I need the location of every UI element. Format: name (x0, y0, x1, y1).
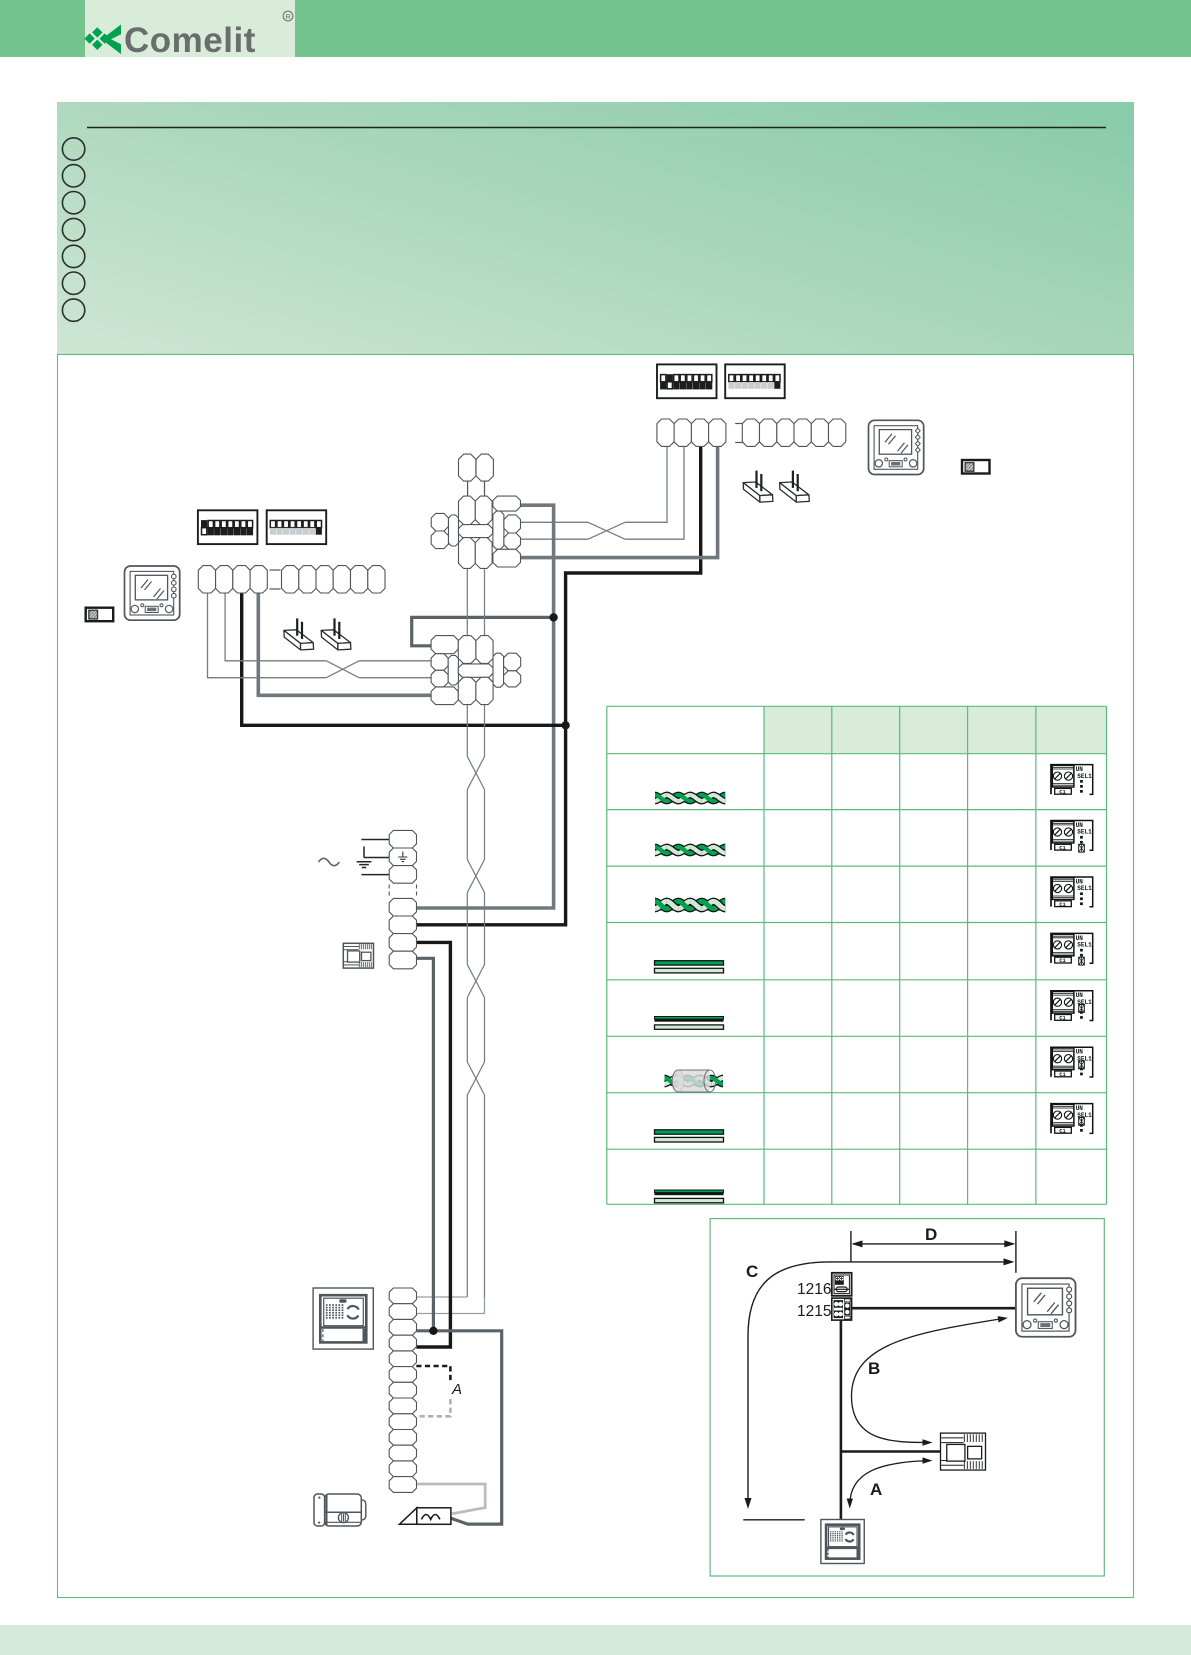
icon 1216 (832, 1273, 852, 1296)
header green band (0, 0, 1191, 57)
inset monitor M3 (1016, 1278, 1076, 1337)
diagram box (58, 355, 1134, 1598)
sel icon row5 (1050, 991, 1093, 1022)
sel icon row3 (1050, 877, 1093, 908)
transformer T1 (399, 1508, 416, 1525)
wire crossing left (326, 661, 359, 678)
wire black left row (242, 593, 566, 725)
svg-text:C1: C1 (1059, 1072, 1065, 1078)
electric lock LK1 (314, 1494, 325, 1526)
terminal row left group1 (198, 566, 215, 593)
svg-text:C: C (746, 1262, 758, 1281)
power column dashed gap (388, 885, 390, 898)
wire dark gray to cluster2 (412, 617, 554, 645)
junction dot B (561, 721, 569, 729)
terminal row dashes left (270, 569, 281, 571)
B curve (852, 1318, 1006, 1442)
cable row6 shielded (665, 1078, 724, 1084)
list circle 6 (62, 272, 84, 294)
DIP switch left S3 (198, 510, 258, 544)
bracket top-right B1 (743, 482, 772, 496)
A curve (850, 1461, 929, 1505)
wire gray bus cluster1 (416, 505, 553, 908)
list circle 4 (62, 218, 84, 240)
entrance panel P1 (313, 1288, 373, 1349)
inset bus monitor line (852, 1307, 1016, 1310)
icon 1215 (832, 1298, 852, 1320)
inset bus vertical (840, 1320, 843, 1522)
svg-text:C1: C1 (1059, 789, 1065, 795)
cable row2 twisted (655, 847, 725, 853)
bottom terminal column (389, 1288, 416, 1304)
wire bottom t3 gray (416, 1331, 501, 1524)
DIP switch left S4 (267, 510, 327, 544)
svg-text:SEL1: SEL1 (1077, 829, 1092, 836)
AC line N (361, 874, 390, 876)
bracket top-right B2 (780, 482, 809, 496)
distributor cluster D1 top pair (459, 454, 476, 481)
svg-text:R: R (285, 12, 291, 21)
distributor cluster D1 (431, 496, 520, 568)
wire gray left row (258, 593, 431, 695)
wire top-right thin 1 (625, 446, 667, 522)
list circle 5 (62, 245, 84, 267)
junction dot C (429, 1327, 437, 1335)
list circle 2 (62, 165, 84, 187)
AC line L (361, 839, 390, 841)
wire power t7 gray down (416, 958, 433, 1331)
terminal row top-right group2 (742, 419, 759, 446)
switch left SW2 (86, 608, 114, 622)
cable row4 flat (655, 961, 724, 965)
terminal row dashes top (735, 423, 746, 425)
svg-text:C1: C1 (1059, 1128, 1065, 1134)
svg-text:C1: C1 (1059, 958, 1065, 964)
riser pair below cluster2 (466, 705, 468, 757)
wire pair to cluster1 (521, 521, 589, 523)
AC tilde (319, 858, 340, 865)
wire t13 light gray (416, 1484, 485, 1514)
wire power t6 black down (416, 942, 450, 1347)
inset box (710, 1219, 1104, 1576)
sel icon row2 (1050, 821, 1093, 853)
logo box (85, 0, 295, 57)
svg-text:A: A (870, 1480, 882, 1499)
sel icon row7 (1050, 1104, 1093, 1135)
wire pair into cluster2 (359, 660, 431, 662)
C baseline (743, 1519, 804, 1521)
amplifier icon (941, 1433, 986, 1470)
Comelit logo mark (84, 25, 121, 55)
svg-text:C1: C1 (1059, 845, 1065, 851)
list circle 3 (62, 192, 84, 214)
C path (748, 1262, 1012, 1506)
wire dashed gray (416, 1399, 450, 1416)
inset bus amplifier line (841, 1450, 941, 1453)
distributor cluster D2 (431, 636, 521, 705)
riser pair stems to terminals (416, 1296, 467, 1298)
inset door station P2 (821, 1520, 864, 1564)
bracket left B3 (284, 630, 313, 644)
sel icon row4 (1050, 933, 1093, 965)
cable row5 flat (655, 1017, 724, 1020)
earth symbol (357, 847, 390, 868)
monitor left M2 (125, 566, 180, 620)
junction dot A (549, 613, 557, 621)
svg-text:1215: 1215 (797, 1303, 831, 1320)
list circle 1 (62, 138, 84, 160)
sel icon row1 (1050, 765, 1093, 796)
svg-text:SEL1: SEL1 (1077, 773, 1092, 780)
wire left thin 1 (208, 593, 327, 678)
svg-text:Comelit: Comelit (124, 21, 256, 60)
wire black top-right (416, 446, 700, 925)
svg-text:1216: 1216 (797, 1281, 831, 1298)
cable row8 flat (655, 1190, 724, 1193)
bracket left B4 (321, 630, 350, 644)
sel icon row6 (1050, 1047, 1093, 1078)
switch top-right SW1 (962, 460, 990, 474)
panel rule (87, 127, 1106, 129)
svg-text:C1: C1 (1059, 902, 1065, 908)
svg-text:A: A (451, 1381, 462, 1398)
DIP switch top-right S1 (657, 364, 717, 398)
wire gray top-right (521, 446, 718, 558)
instructions panel (57, 102, 1134, 354)
svg-text:D: D (925, 1225, 937, 1244)
cable row7 flat (655, 1130, 724, 1134)
svg-text:SEL1: SEL1 (1077, 942, 1092, 949)
cable row1 twisted (655, 795, 725, 801)
D dimension ticks (850, 1231, 852, 1262)
DIP switch top-right S2 (725, 364, 785, 398)
cable table (607, 706, 1107, 1204)
monitor top-right M1 (869, 420, 924, 474)
svg-text:B: B (868, 1359, 880, 1378)
power terminal column (389, 830, 416, 848)
wire left thin 2 (225, 593, 326, 661)
D arrow (853, 1243, 1014, 1245)
wire top-right thin 2 (625, 446, 684, 539)
svg-text:SEL1: SEL1 (1077, 885, 1092, 892)
footer band (0, 1625, 1191, 1655)
earth mark in terminal (398, 852, 407, 862)
svg-text:C1: C1 (1059, 1016, 1065, 1022)
riser pair cluster1-cluster2 (466, 569, 468, 637)
wire dashed A black (416, 1366, 450, 1383)
terminal row top-right group1 (657, 419, 674, 446)
wire crossing top (588, 522, 625, 539)
cable row3 twisted (655, 901, 725, 908)
terminal row left group2 (282, 566, 299, 593)
module icon small (343, 943, 373, 968)
list circle 7 (62, 299, 84, 321)
